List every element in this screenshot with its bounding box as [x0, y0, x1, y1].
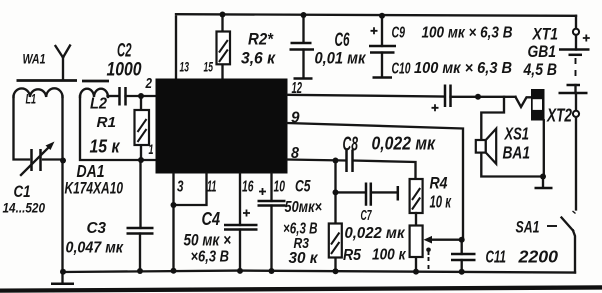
- svg-text:4,5 В: 4,5 В: [523, 61, 557, 79]
- svg-text:WA1: WA1: [23, 52, 46, 67]
- svg-text:15 к: 15 к: [90, 137, 121, 157]
- svg-text:100 к: 100 к: [372, 247, 407, 264]
- svg-text:L1: L1: [26, 92, 37, 107]
- svg-text:10 к: 10 к: [430, 192, 452, 212]
- svg-text:8: 8: [291, 145, 299, 162]
- svg-text:3: 3: [177, 179, 184, 196]
- svg-text:3,6 к: 3,6 к: [241, 49, 276, 68]
- svg-text:R1: R1: [97, 114, 117, 131]
- svg-text:K174XA10: K174XA10: [65, 180, 124, 198]
- svg-text:100 мк × 6,3 В: 100 мк × 6,3 В: [422, 25, 513, 42]
- svg-text:C8: C8: [343, 134, 359, 156]
- svg-text:2200: 2200: [517, 247, 558, 267]
- svg-text:XT1: XT1: [532, 26, 558, 44]
- svg-text:0,022 мк: 0,022 мк: [345, 225, 406, 242]
- svg-text:R2*: R2*: [248, 30, 274, 49]
- svg-text:C11: C11: [486, 247, 507, 267]
- svg-text:0,047 мк: 0,047 мк: [66, 240, 124, 257]
- svg-text:C3: C3: [87, 220, 107, 237]
- svg-text:C9: C9: [392, 25, 406, 42]
- svg-text:1: 1: [149, 141, 154, 157]
- svg-text:14...520: 14...520: [3, 201, 46, 216]
- svg-text:12: 12: [292, 80, 303, 97]
- svg-text:R4: R4: [430, 174, 448, 193]
- svg-text:C6: C6: [335, 30, 350, 51]
- svg-text:11: 11: [207, 179, 217, 196]
- svg-text:XT2: XT2: [546, 105, 572, 126]
- svg-text:BA1: BA1: [503, 143, 531, 163]
- svg-text:50мк×: 50мк×: [285, 199, 323, 216]
- svg-text:0,01 мк: 0,01 мк: [315, 50, 367, 68]
- svg-text:DA1: DA1: [77, 161, 105, 181]
- svg-text:C10: C10: [392, 61, 411, 78]
- svg-text:0,022 мк: 0,022 мк: [372, 134, 436, 154]
- svg-text:50 мк ×: 50 мк ×: [184, 231, 232, 250]
- svg-text:R5: R5: [343, 247, 361, 264]
- svg-text:×6,3 В: ×6,3 В: [283, 221, 318, 238]
- svg-text:XS1: XS1: [504, 124, 529, 144]
- svg-text:15: 15: [204, 59, 214, 75]
- svg-text:2: 2: [145, 76, 152, 92]
- svg-text:C1: C1: [14, 182, 31, 201]
- svg-text:13: 13: [180, 59, 190, 75]
- svg-text:C7: C7: [361, 208, 373, 224]
- svg-text:SA1: SA1: [516, 218, 540, 237]
- svg-text:1000: 1000: [107, 60, 142, 81]
- svg-text:9: 9: [291, 110, 300, 127]
- svg-text:10: 10: [274, 179, 286, 196]
- svg-text:100 мк × 6,3 В: 100 мк × 6,3 В: [414, 60, 512, 77]
- svg-text:C5: C5: [295, 178, 311, 196]
- svg-text:GB1: GB1: [528, 43, 557, 61]
- svg-text:L2: L2: [90, 96, 107, 113]
- svg-text:×6,3 В: ×6,3 В: [191, 249, 230, 266]
- svg-text:16: 16: [242, 179, 254, 196]
- svg-text:C2: C2: [117, 41, 132, 62]
- svg-text:30 к: 30 к: [289, 250, 319, 267]
- svg-text:C4: C4: [202, 209, 221, 229]
